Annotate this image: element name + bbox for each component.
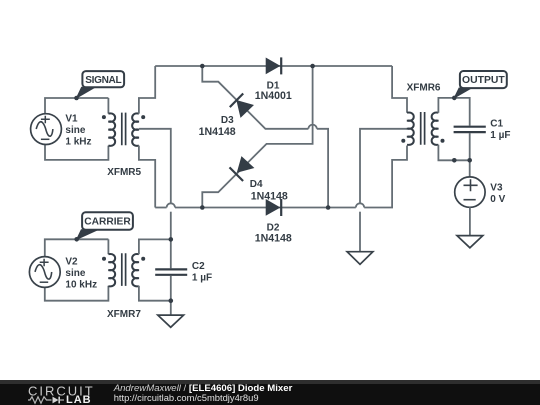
svg-text:1N4001: 1N4001 [255,90,292,102]
node dot bottom rail / D3 down wire [326,205,331,210]
wire hop over x171 on bottom rail [167,203,175,207]
svg-text:XFMR7: XFMR7 [107,309,141,320]
svg-text:D4: D4 [250,179,263,190]
XFMR7 core [122,253,126,286]
diode D1 [266,57,281,74]
voltage source V2 [29,257,60,288]
node dot top rail / D3 [200,64,205,69]
svg-text:0 V: 0 V [490,194,505,205]
XFMR5 right winding [132,113,139,145]
wire XFMR7 right top jog to C2 node [139,239,171,254]
svg-text:CARRIER: CARRIER [84,217,131,228]
node CARRIER dot [74,237,79,242]
node dot C1/V3 junction [467,158,472,163]
ground symbol at x360 [347,252,373,265]
XFMR5 core [122,113,126,146]
flag OUTPUT tail [454,88,471,98]
node dot bottom output wire [452,158,457,163]
svg-text:10 kHz: 10 kHz [65,280,97,291]
capacitor C2 [155,269,187,274]
wire XFMR5 right top jog to top rail [139,66,155,114]
wire V2 loop [45,239,109,300]
transformer XFMR6 [401,112,444,145]
XFMR7 left winding [108,254,115,286]
svg-text:1 µF: 1 µF [490,130,510,141]
XFMR5 left winding [108,113,115,145]
diode D3 [230,94,253,117]
svg-text:V2: V2 [65,256,78,267]
svg-text:XFMR6: XFMR6 [407,83,441,94]
XFMR6 left winding [407,112,414,144]
node dot top rail / D4 vertical [310,64,315,69]
svg-text:OUTPUT: OUTPUT [462,75,505,86]
wire top rail right end down to XFMR6 top jog [392,66,407,113]
wire XFMR6 right bottom to C1 bottom and V3 [438,145,469,178]
wire bottom rail to hop at x360 [175,207,356,209]
node dot bottom rail / D4 [200,205,205,210]
XFMR6 phase dots [401,139,405,143]
ground symbol under V3 [457,236,483,248]
wire hop over x312.6 on D3 wire [308,125,316,129]
wire C2 bottom plate down to bottom node [170,276,172,301]
wire bottom rail end to XFMR6 bottom jog [364,146,407,208]
wire C1 bottom plate to bottom wire [469,133,471,160]
svg-text:1 kHz: 1 kHz [65,137,91,148]
svg-text:SIGNAL: SIGNAL [85,75,121,86]
XFMR6 core [421,112,425,145]
wire top rail [155,65,392,67]
diode D2 [266,199,281,216]
wire bottom rail (left of hop at x171) [155,207,166,209]
wire D4 jog from bottom rail [202,66,312,208]
flag CARRIER tail [77,230,98,240]
voltage source V3 [455,177,485,207]
voltage source V1 [31,114,62,145]
svg-text:C2: C2 [192,261,205,272]
XFMR5 phase dots [102,115,106,119]
wire C2 node down to C2 top plate [170,239,172,268]
node OUTPUT dot [452,96,457,101]
svg-text:D3: D3 [221,115,234,126]
footer bar [0,380,540,405]
svg-text:C1: C1 [490,119,503,130]
wire XFMR6 center tap from x360 [360,129,407,204]
wire x360 below rail hop to ground [359,212,361,252]
node SIGNAL dot [74,96,79,101]
wire V3 bottom to ground [469,207,471,235]
wire XFMR5 center tap to vertical x171 [139,129,171,204]
wire XFMR5 right bottom jog to bottom rail [139,146,155,208]
XFMR6 right winding [432,112,439,144]
flag OUTPUT box [460,71,507,88]
XFMR7 phase dots [102,257,106,261]
svg-text:1 µF: 1 µF [192,272,212,283]
svg-text:sine: sine [65,268,85,279]
wire V2 top to XFMR7 left winding [107,239,109,254]
svg-text:1N4148: 1N4148 [255,232,292,244]
wire D3 bottom wire to x328 then down to bottom rail [317,129,328,208]
node dot XFMR7/C2 bottom [169,298,174,303]
flag CARRIER box [82,212,133,229]
wire down to ground under C2 [170,301,172,315]
svg-text:1N4148: 1N4148 [199,126,236,138]
svg-text:V1: V1 [65,114,78,125]
wire V1 loop (top/left/bottom) [45,98,108,160]
wire x171 below rail hop down to C2 node [170,212,172,240]
flag SIGNAL box [82,71,124,87]
ground symbol under C2 [158,315,184,327]
svg-text:sine: sine [65,125,85,136]
svg-text:V3: V3 [490,182,503,193]
wire XFMR7 right bottom jog [139,286,171,301]
svg-text:LAB: LAB [66,394,92,405]
capacitor C1 [454,127,486,132]
wire D3 jog from top rail [202,66,308,129]
diode D4 [230,157,254,181]
svg-text:XFMR5: XFMR5 [107,167,141,178]
transformer XFMR5 [102,113,145,146]
flag SIGNAL tail [77,87,96,98]
wire hop over x360 on bottom rail [356,203,364,207]
wire XFMR6 right top to OUTPUT node and C1 [438,98,469,126]
footer logo zigzag and diode [28,397,52,403]
transformer XFMR7 [102,253,145,286]
svg-text:http://circuitlab.com/c5mbtdjy: http://circuitlab.com/c5mbtdjy4r8u9 [114,392,259,403]
XFMR7 right winding [132,254,139,286]
node dot XFMR7/C2 top [169,237,174,242]
wire V1 top to XFMR5 left winding [107,98,109,114]
svg-text:1N4148: 1N4148 [251,190,288,202]
